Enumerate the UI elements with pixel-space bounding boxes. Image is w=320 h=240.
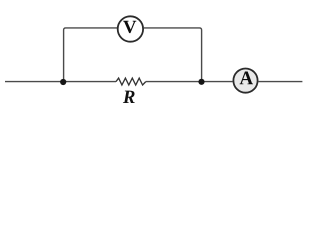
voltmeter label V xyxy=(123,21,136,33)
value label R xyxy=(123,91,135,103)
ammeter label A xyxy=(240,72,253,85)
wire: main horizontal middle segment xyxy=(146,81,233,83)
wire: main horizontal left segment xyxy=(5,81,116,83)
wire: top-right segment and right vertical branch riser xyxy=(144,28,202,82)
node: right junction dot xyxy=(198,79,204,85)
resistor R1 zigzag xyxy=(116,78,146,85)
voltmeter U1 circle xyxy=(118,16,143,41)
wire: left vertical branch riser and top-left segment xyxy=(64,28,118,82)
ammeter U2 circle xyxy=(233,69,257,93)
node: left junction dot xyxy=(60,79,66,85)
wire: main horizontal right segment xyxy=(258,81,302,83)
